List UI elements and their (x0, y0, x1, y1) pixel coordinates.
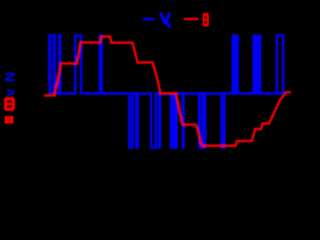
legend blue sample line (143, 18, 155, 21)
wire blue PWM square wave (3-level) (49, 36, 283, 148)
svg-text:N: N (2, 72, 18, 82)
legend red label 8-glyph (203, 13, 210, 27)
wire red staircase curve (44, 37, 291, 146)
legend blue label v glyph (161, 14, 170, 26)
wire blue first pulse filled interior (x 48-55.5) (51, 34, 54, 94)
legend red sample line (184, 18, 199, 21)
node y-axis label red (rotated bar + 8-glyph) (4, 97, 15, 124)
wire blue end-section pulse (filled, x 233-238) (232, 34, 239, 94)
svg-text:v: v (2, 89, 18, 97)
wire blue end-section pulse (filled, x 249.5-257) (252, 34, 261, 94)
wire blue end-section pulse (outline, x 276-283) (277, 36, 283, 94)
node y-axis label blue (rotated vN) (2, 72, 18, 97)
